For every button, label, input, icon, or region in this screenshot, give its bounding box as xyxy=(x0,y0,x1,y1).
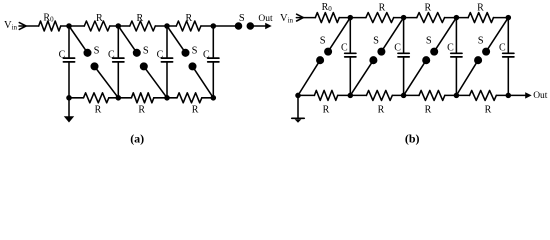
node N4 (a) xyxy=(211,96,215,100)
resistor R top2 (a) xyxy=(118,25,130,27)
svg-text:C: C xyxy=(59,50,66,61)
switch S1 (b) xyxy=(328,18,350,52)
svg-text:C: C xyxy=(447,42,454,53)
node N3 (b) xyxy=(454,93,458,97)
switch S2 (b) xyxy=(381,18,403,52)
capacitor C2 (a) xyxy=(117,26,119,57)
resistor R top1 (a) xyxy=(69,25,84,27)
svg-text:S: S xyxy=(94,46,100,57)
capacitor C4 (a) xyxy=(212,26,214,57)
svg-text:R: R xyxy=(477,2,484,13)
svg-text:S: S xyxy=(239,13,245,24)
wire R0 to T1 (b) xyxy=(339,17,350,19)
svg-text:(a): (a) xyxy=(130,132,144,146)
svg-text:R: R xyxy=(485,105,492,116)
resistor R bottom1 (b) xyxy=(350,94,366,96)
svg-text:C: C xyxy=(499,42,506,53)
node T1 (a) xyxy=(67,24,71,28)
node T1 (b) xyxy=(348,16,352,20)
svg-text:R: R xyxy=(138,105,145,116)
wire Vin to R0 xyxy=(19,25,39,27)
resistor R bottom0 (b) xyxy=(298,94,314,96)
resistor R0 (a) xyxy=(39,21,61,31)
switch S2 (a) xyxy=(118,26,137,53)
capacitor C3 (a) xyxy=(166,26,168,57)
wire T4 to output switch xyxy=(213,25,238,27)
svg-text:R: R xyxy=(378,105,385,116)
svg-text:R: R xyxy=(424,2,431,13)
switch S3 (b) xyxy=(434,18,456,52)
resistor R bottom2 (b) xyxy=(404,94,419,96)
svg-text:R: R xyxy=(185,13,192,24)
svg-text:R: R xyxy=(425,105,432,116)
node N1 (a) xyxy=(67,96,71,100)
node N4 (b) xyxy=(506,93,510,97)
svg-text:C: C xyxy=(203,50,210,61)
switch S3 (a) xyxy=(167,26,186,53)
svg-text:Vin: Vin xyxy=(4,20,18,32)
switch S1 (a) xyxy=(69,26,88,53)
svg-text:S: S xyxy=(192,46,198,57)
svg-text:C: C xyxy=(341,42,348,53)
output switch S contact 1 (a) xyxy=(236,23,242,29)
svg-text:R: R xyxy=(96,13,103,24)
svg-text:C: C xyxy=(394,42,401,53)
svg-text:S: S xyxy=(426,36,432,47)
svg-text:Out: Out xyxy=(533,91,548,101)
capacitor C4 (b) xyxy=(507,18,509,53)
resistor R0 (b) xyxy=(315,13,339,23)
wire to Out arrow (a) xyxy=(250,25,266,27)
svg-text:(b): (b) xyxy=(405,132,420,146)
resistor R top1 (b) xyxy=(350,17,366,19)
capacitor C1 (b) xyxy=(349,18,351,53)
svg-text:C: C xyxy=(108,50,115,61)
capacitor C3 (b) xyxy=(455,18,457,53)
resistor R top3 (a) xyxy=(167,25,176,27)
svg-text:R: R xyxy=(95,105,102,116)
input arrow (b) xyxy=(297,14,304,21)
node N3 (a) xyxy=(165,96,169,100)
wire Vin to R0 (b) xyxy=(296,17,315,19)
svg-text:S: S xyxy=(320,36,326,47)
svg-text:R0: R0 xyxy=(322,2,333,13)
node N2 (a) xyxy=(116,96,120,100)
ground (b) xyxy=(297,95,299,117)
node T3 (b) xyxy=(454,16,458,20)
switch S4 (b) xyxy=(486,18,508,52)
ground (a) xyxy=(68,98,70,117)
node T2 (a) xyxy=(116,24,120,28)
node N2 (b) xyxy=(402,93,406,97)
svg-text:R: R xyxy=(379,2,386,13)
resistor R bottom3 (b) xyxy=(456,94,469,96)
wire R0 to T1 xyxy=(61,25,69,27)
resistor R bottom3 (a) xyxy=(167,97,177,99)
Out arrow (a) xyxy=(265,23,272,29)
svg-text:R: R xyxy=(323,105,330,116)
wire to Out arrow (b) xyxy=(508,94,525,96)
node N0 (b) xyxy=(296,93,300,97)
svg-text:C: C xyxy=(157,50,164,61)
capacitor C1 (a) xyxy=(68,26,70,57)
svg-text:R: R xyxy=(136,13,143,24)
node T4 (b) xyxy=(506,16,510,20)
svg-text:Out: Out xyxy=(258,14,273,24)
svg-text:Vin: Vin xyxy=(280,13,294,25)
resistor R bottom1 (a) xyxy=(69,97,84,99)
resistor R top3 (b) xyxy=(456,17,468,19)
capacitor C2 (b) xyxy=(403,18,405,53)
resistor R bottom2 (a) xyxy=(118,97,131,99)
svg-text:R0: R0 xyxy=(43,12,54,23)
node T3 (a) xyxy=(165,24,169,28)
resistor R top2 (b) xyxy=(404,17,417,19)
svg-text:S: S xyxy=(478,36,484,47)
Out arrow (b) xyxy=(525,92,532,98)
node N1 (b) xyxy=(348,93,352,97)
svg-text:R: R xyxy=(192,105,199,116)
output switch S contact 2 (a) xyxy=(247,23,253,29)
svg-text:S: S xyxy=(143,46,149,57)
input arrow (a) xyxy=(19,23,26,30)
node T4 (a) xyxy=(211,24,215,28)
node T2 (b) xyxy=(402,16,406,20)
svg-text:S: S xyxy=(373,36,379,47)
